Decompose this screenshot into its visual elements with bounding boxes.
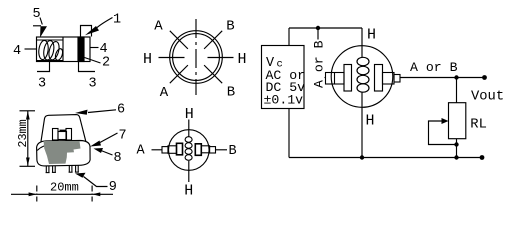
svg-text:±0.1v: ±0.1v [264, 92, 304, 107]
svg-text:H: H [366, 113, 375, 130]
svg-text:6: 6 [117, 103, 125, 118]
junction dot out [454, 75, 458, 79]
wire B [216, 149, 228, 151]
arrowhead 9 [75, 173, 86, 178]
svg-text:20mm: 20mm [50, 181, 79, 195]
leader 1 [97, 18, 113, 29]
label Vout [471, 90, 504, 105]
wire A-branch down [317, 28, 319, 78]
wire top horizontal [289, 27, 362, 29]
svg-text:A or B: A or B [410, 60, 458, 75]
label A bottom-left [160, 85, 169, 101]
pin stub left [162, 147, 168, 153]
pin A top-left [170, 31, 188, 49]
wire bottom horizontal [289, 157, 483, 159]
wire box top up [288, 28, 290, 46]
base can [37, 141, 91, 166]
leader 2 [85, 58, 101, 64]
plastic cap [41, 115, 86, 142]
svg-text:23mm: 23mm [16, 119, 30, 147]
label H bottom [184, 183, 193, 200]
20mm dimension line [11, 193, 113, 195]
label H top [367, 26, 376, 43]
pin H left [159, 57, 185, 59]
svg-text:1: 1 [113, 13, 121, 28]
label H top [185, 106, 194, 123]
label H bottom circuit [366, 113, 375, 130]
box label ±0.1v [264, 92, 304, 107]
arrow sliver 5 [40, 26, 47, 37]
sensor coil [357, 57, 369, 92]
box label DC 5v [266, 80, 306, 95]
label 8 [114, 151, 122, 166]
svg-text:RL: RL [470, 118, 487, 133]
svg-text:4: 4 [13, 44, 21, 59]
pin B bottom-right [204, 65, 222, 83]
label 5 [33, 7, 41, 22]
box label AC or [266, 68, 306, 83]
label A top-left [154, 19, 163, 35]
leader 6 [88, 110, 116, 113]
label RL [470, 118, 487, 133]
wire A [152, 149, 163, 151]
wire RL bottom [456, 139, 458, 158]
pin 4 [75, 165, 79, 172]
heater coil scribble [37, 40, 64, 61]
wire H top down into coil [361, 28, 363, 57]
svg-text:B: B [226, 19, 234, 35]
23mm text [16, 119, 30, 147]
arrowhead 7 [90, 141, 101, 147]
label 4 right [100, 42, 108, 57]
leader 7 [99, 133, 118, 143]
center axis line [195, 19, 197, 95]
wiper wire [429, 121, 457, 145]
power source box [262, 46, 305, 109]
svg-text:A: A [160, 85, 169, 101]
20mm text [50, 181, 79, 195]
junction dot top [316, 26, 320, 30]
pin B top-right [204, 31, 222, 49]
pin extension left [37, 62, 50, 72]
sensor circle [331, 46, 393, 108]
bar left [326, 73, 345, 85]
sensing element rects [53, 129, 59, 141]
leader 4 right [90, 47, 99, 49]
heater coil [185, 137, 192, 161]
electrode black band [78, 37, 84, 62]
arrowhead 6 [75, 110, 88, 115]
label B top-right [226, 19, 234, 35]
pin extension right [79, 62, 96, 72]
shell circle [169, 130, 210, 171]
wiper arrowhead [442, 118, 449, 124]
clamp bracket top right [81, 26, 92, 37]
pin 3 [69, 165, 73, 172]
leader 9 [84, 177, 108, 187]
electrode left [344, 65, 352, 92]
arrowhead 8 [94, 148, 104, 153]
resistor RL box [449, 103, 466, 139]
junction dot wiper [454, 142, 458, 146]
label B [229, 144, 237, 159]
svg-text:8: 8 [114, 151, 122, 166]
label B bottom-right [227, 84, 235, 100]
terminal dot bottom [480, 155, 485, 160]
wire output right [400, 77, 457, 79]
label 9 [109, 180, 117, 195]
svg-text:5: 5 [33, 7, 41, 22]
label 3 left [38, 77, 46, 92]
heater lead top [188, 120, 190, 138]
wire heater bottom [361, 92, 363, 157]
svg-text:3: 3 [89, 77, 97, 92]
heater lead bottom [188, 161, 190, 182]
svg-text:H: H [184, 183, 193, 200]
label 7 [119, 129, 127, 144]
wire box bottom down [288, 109, 290, 158]
pad left [168, 146, 177, 154]
box label Vc [266, 56, 283, 71]
leader 5 [40, 18, 42, 25]
svg-text:A or B: A or B [312, 40, 327, 88]
svg-text:Vout: Vout [471, 90, 504, 105]
label H left [143, 51, 152, 68]
pin H right [208, 57, 234, 59]
wire A-branch to pad [318, 77, 326, 79]
svg-text:3: 3 [38, 77, 46, 92]
label 3 right [89, 77, 97, 92]
junction dot bottom RL [454, 155, 458, 159]
A or B rotated label [312, 40, 327, 89]
svg-text:2: 2 [102, 56, 110, 71]
svg-text:H: H [185, 106, 194, 123]
svg-text:H: H [143, 51, 152, 68]
electrode right [195, 144, 201, 156]
outer ring [170, 31, 223, 84]
label A [137, 144, 146, 159]
label 2 [102, 56, 110, 71]
label 1 [113, 13, 121, 28]
sensor body tube [37, 37, 91, 62]
terminal dot top [482, 75, 487, 80]
leader 4 left [25, 48, 37, 50]
wire down to RL [456, 78, 458, 103]
base inner rim arc [37, 144, 53, 150]
stub right [394, 75, 400, 83]
svg-text:B: B [227, 84, 235, 100]
pin stub right [210, 147, 216, 153]
svg-text:H: H [238, 51, 247, 68]
svg-text:9: 9 [109, 180, 117, 195]
label A or B right [410, 60, 458, 75]
electrode left [177, 143, 183, 155]
arrowhead 1 [85, 26, 99, 35]
wire to vout terminal [457, 77, 485, 79]
svg-text:B: B [229, 144, 237, 159]
electrode right [375, 65, 383, 92]
inner ring [173, 34, 220, 81]
pin 2 [52, 166, 56, 173]
svg-text:H: H [367, 26, 376, 43]
svg-text:A: A [154, 19, 163, 35]
gray resin blob [44, 141, 81, 164]
label H right [238, 51, 247, 68]
23mm dimension line [27, 111, 29, 166]
leader 8 [101, 151, 113, 156]
label 4 left [13, 44, 21, 59]
svg-text:7: 7 [119, 129, 127, 144]
junction dot bottom H [360, 155, 364, 159]
bar right [383, 73, 395, 85]
pin 1 [46, 166, 50, 173]
pin A bottom-left [170, 65, 188, 83]
pad right [201, 146, 209, 153]
label 6 [117, 103, 125, 118]
ceramic tube divider [62, 37, 64, 62]
svg-text:A: A [137, 144, 146, 159]
